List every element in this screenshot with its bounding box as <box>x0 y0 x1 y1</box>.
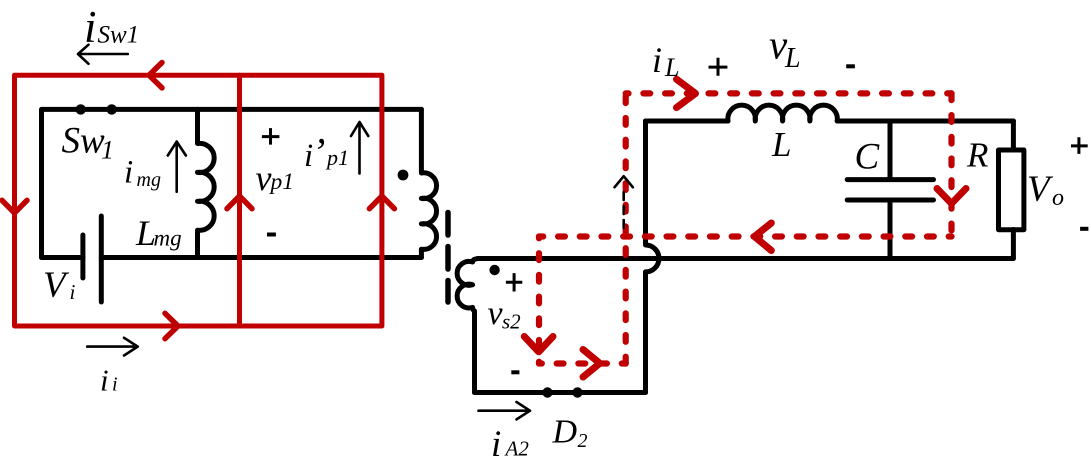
svg-text:A2: A2 <box>504 437 530 461</box>
red dashed arrow left (middle horizontal) <box>755 223 772 251</box>
wire: output left vertical with hop over horizontal wire <box>646 121 659 393</box>
capacitor C top plate <box>847 177 933 182</box>
svg-text:Sw1: Sw1 <box>98 22 140 49</box>
red arrow down on left red wire <box>2 200 27 213</box>
red dashed loop: middle horizontal <box>539 233 952 239</box>
battery Vi long plate <box>99 216 104 302</box>
red dashed arrow down (right side) <box>937 189 966 204</box>
transformer secondary winding <box>457 259 480 393</box>
transformer secondary polarity dot <box>489 265 499 275</box>
svg-text:Sw: Sw <box>62 121 106 162</box>
switch Sw1 terminal dots <box>76 104 86 114</box>
svg-text:p1: p1 <box>325 145 349 170</box>
svg-text:1: 1 <box>101 135 114 164</box>
capacitor C bottom plate <box>847 198 933 203</box>
svg-text:mg: mg <box>154 226 182 251</box>
svg-text:s2: s2 <box>502 310 521 334</box>
svg-text:L: L <box>664 53 679 82</box>
svg-text:C: C <box>855 137 881 178</box>
capacitor C bottom stem <box>888 200 893 259</box>
label arrow img (up) <box>168 142 186 192</box>
svg-text:i: i <box>112 374 118 396</box>
wire: diode branch bottom <box>475 390 646 395</box>
label + (v_s2) <box>506 273 522 291</box>
transformer core dashed line <box>445 213 451 303</box>
svg-text:2: 2 <box>578 430 588 452</box>
inductor L <box>728 105 838 121</box>
svg-text:V: V <box>43 265 70 306</box>
wire: bottom left to battery <box>42 255 83 260</box>
svg-text:L: L <box>784 43 801 74</box>
wire: battery to transformer bottom <box>101 255 421 260</box>
label + (v_L) <box>709 58 728 76</box>
red loop solid: outer rectangle <box>15 75 382 326</box>
red dashed loop: bottom horizontal <box>539 360 626 366</box>
svg-text:D: D <box>552 414 578 451</box>
label - (v_L) <box>846 64 855 68</box>
wire: left loop top/left/stub to transformer <box>42 109 422 257</box>
transformer primary winding <box>421 109 436 257</box>
resistor R body <box>999 150 1024 230</box>
svg-text:i: i <box>124 154 133 190</box>
svg-text:p1: p1 <box>269 169 295 195</box>
svg-text:o: o <box>1052 185 1064 211</box>
label arrow i'p1 (up) <box>351 122 368 174</box>
svg-text:i: i <box>100 363 109 398</box>
label - (V_o) <box>1080 227 1088 231</box>
label arrow ii (right) <box>87 338 138 356</box>
label + (v_p1) <box>262 128 280 145</box>
red arrow right on bottom red wire <box>165 313 178 338</box>
svg-text:i: i <box>70 280 76 304</box>
svg-text:i: i <box>491 424 501 463</box>
svg-text:R: R <box>966 135 988 174</box>
label - (v_p1) <box>267 233 276 237</box>
red dashed arrow right (y=363) <box>583 350 600 378</box>
svg-text:mg: mg <box>137 169 161 191</box>
label arrow iA2 (right) <box>479 402 531 419</box>
wire: secondary top to output bottom rail <box>478 256 1013 261</box>
svg-text:i: i <box>652 40 662 80</box>
svg-text:v: v <box>256 158 272 198</box>
red arrow up on middle red wire <box>227 196 252 209</box>
wire: output top rail right of L <box>837 119 1013 124</box>
label + (V_o) <box>1071 137 1088 154</box>
svg-text:V: V <box>1027 169 1054 210</box>
red arrow left on top red wire <box>149 63 162 88</box>
label - (v_s2) <box>511 370 519 374</box>
label arrow iSw1 (left) <box>78 45 128 64</box>
battery Vi short plate <box>80 235 85 278</box>
wire: output right top stem <box>1011 121 1016 150</box>
svg-text:i: i <box>84 2 97 52</box>
svg-text:’: ’ <box>312 130 325 175</box>
red dashed arrow down (x=539) <box>524 337 553 352</box>
diode D2 terminal dots <box>542 387 552 397</box>
svg-text:L: L <box>771 125 791 164</box>
capacitor C top stem <box>888 121 893 180</box>
red dashed loop: top horizontal <box>626 90 952 96</box>
inductor Lmg <box>198 109 215 257</box>
wire: output right bottom stem <box>1011 230 1016 259</box>
red arrow up on right red wire <box>369 196 394 209</box>
wire: output top rail left of L <box>646 119 729 124</box>
thin dashed current arrow up at x=624 <box>615 176 633 187</box>
red dashed loop: lower-left vertical <box>536 237 542 364</box>
red dashed loop: right vertical <box>948 93 954 236</box>
transformer primary polarity dot <box>398 170 409 181</box>
red dashed loop: left vertical <box>623 93 629 363</box>
red dashed arrow right (iL, top) <box>677 79 696 107</box>
red loop solid: middle vertical <box>237 75 242 326</box>
